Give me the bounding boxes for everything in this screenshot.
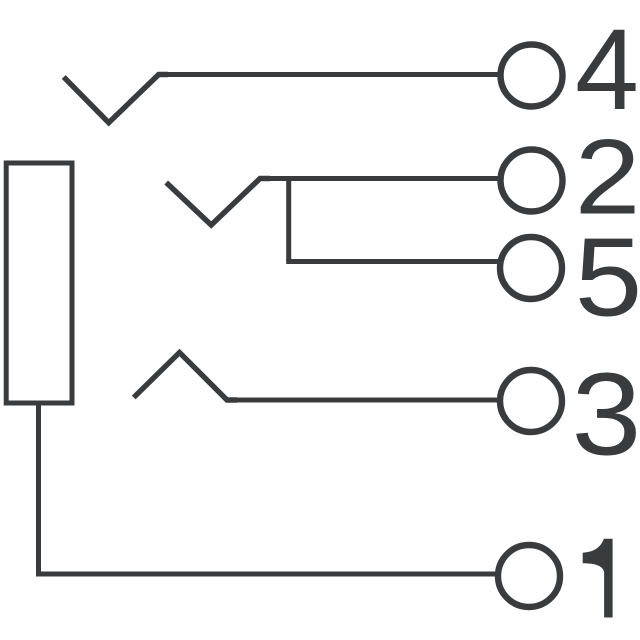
svg-text:3: 3 [572,349,640,480]
switch contact (normalling) for pin 3 [134,353,237,401]
switch contact (normalling) for pin 4 [64,75,168,123]
svg-text:5: 5 [575,216,640,340]
switch contact (normalling) for pin 2 [166,179,270,226]
terminal circle pin 1 [498,545,560,607]
junction node: pin 2 / pin 5 tap [286,179,291,262]
wire: pin 5 horizontal run [286,259,498,264]
terminal circle pin 2 [501,150,563,212]
wire: sleeve to pin 1 (vertical drop) [36,404,41,574]
wire: pin 3 horizontal run [227,398,497,403]
pin label 1 [583,539,613,618]
svg-text:4: 4 [575,6,639,134]
wire: pin 2 horizontal run [260,176,498,181]
wire: pin 1 horizontal run [36,572,496,577]
jack body J1 (sleeve rectangle) [6,163,72,403]
terminal circle pin 4 [501,45,563,107]
terminal circle pin 3 [500,370,562,432]
wire: pin 4 horizontal run [159,72,498,77]
terminal circle pin 5 [500,237,562,299]
